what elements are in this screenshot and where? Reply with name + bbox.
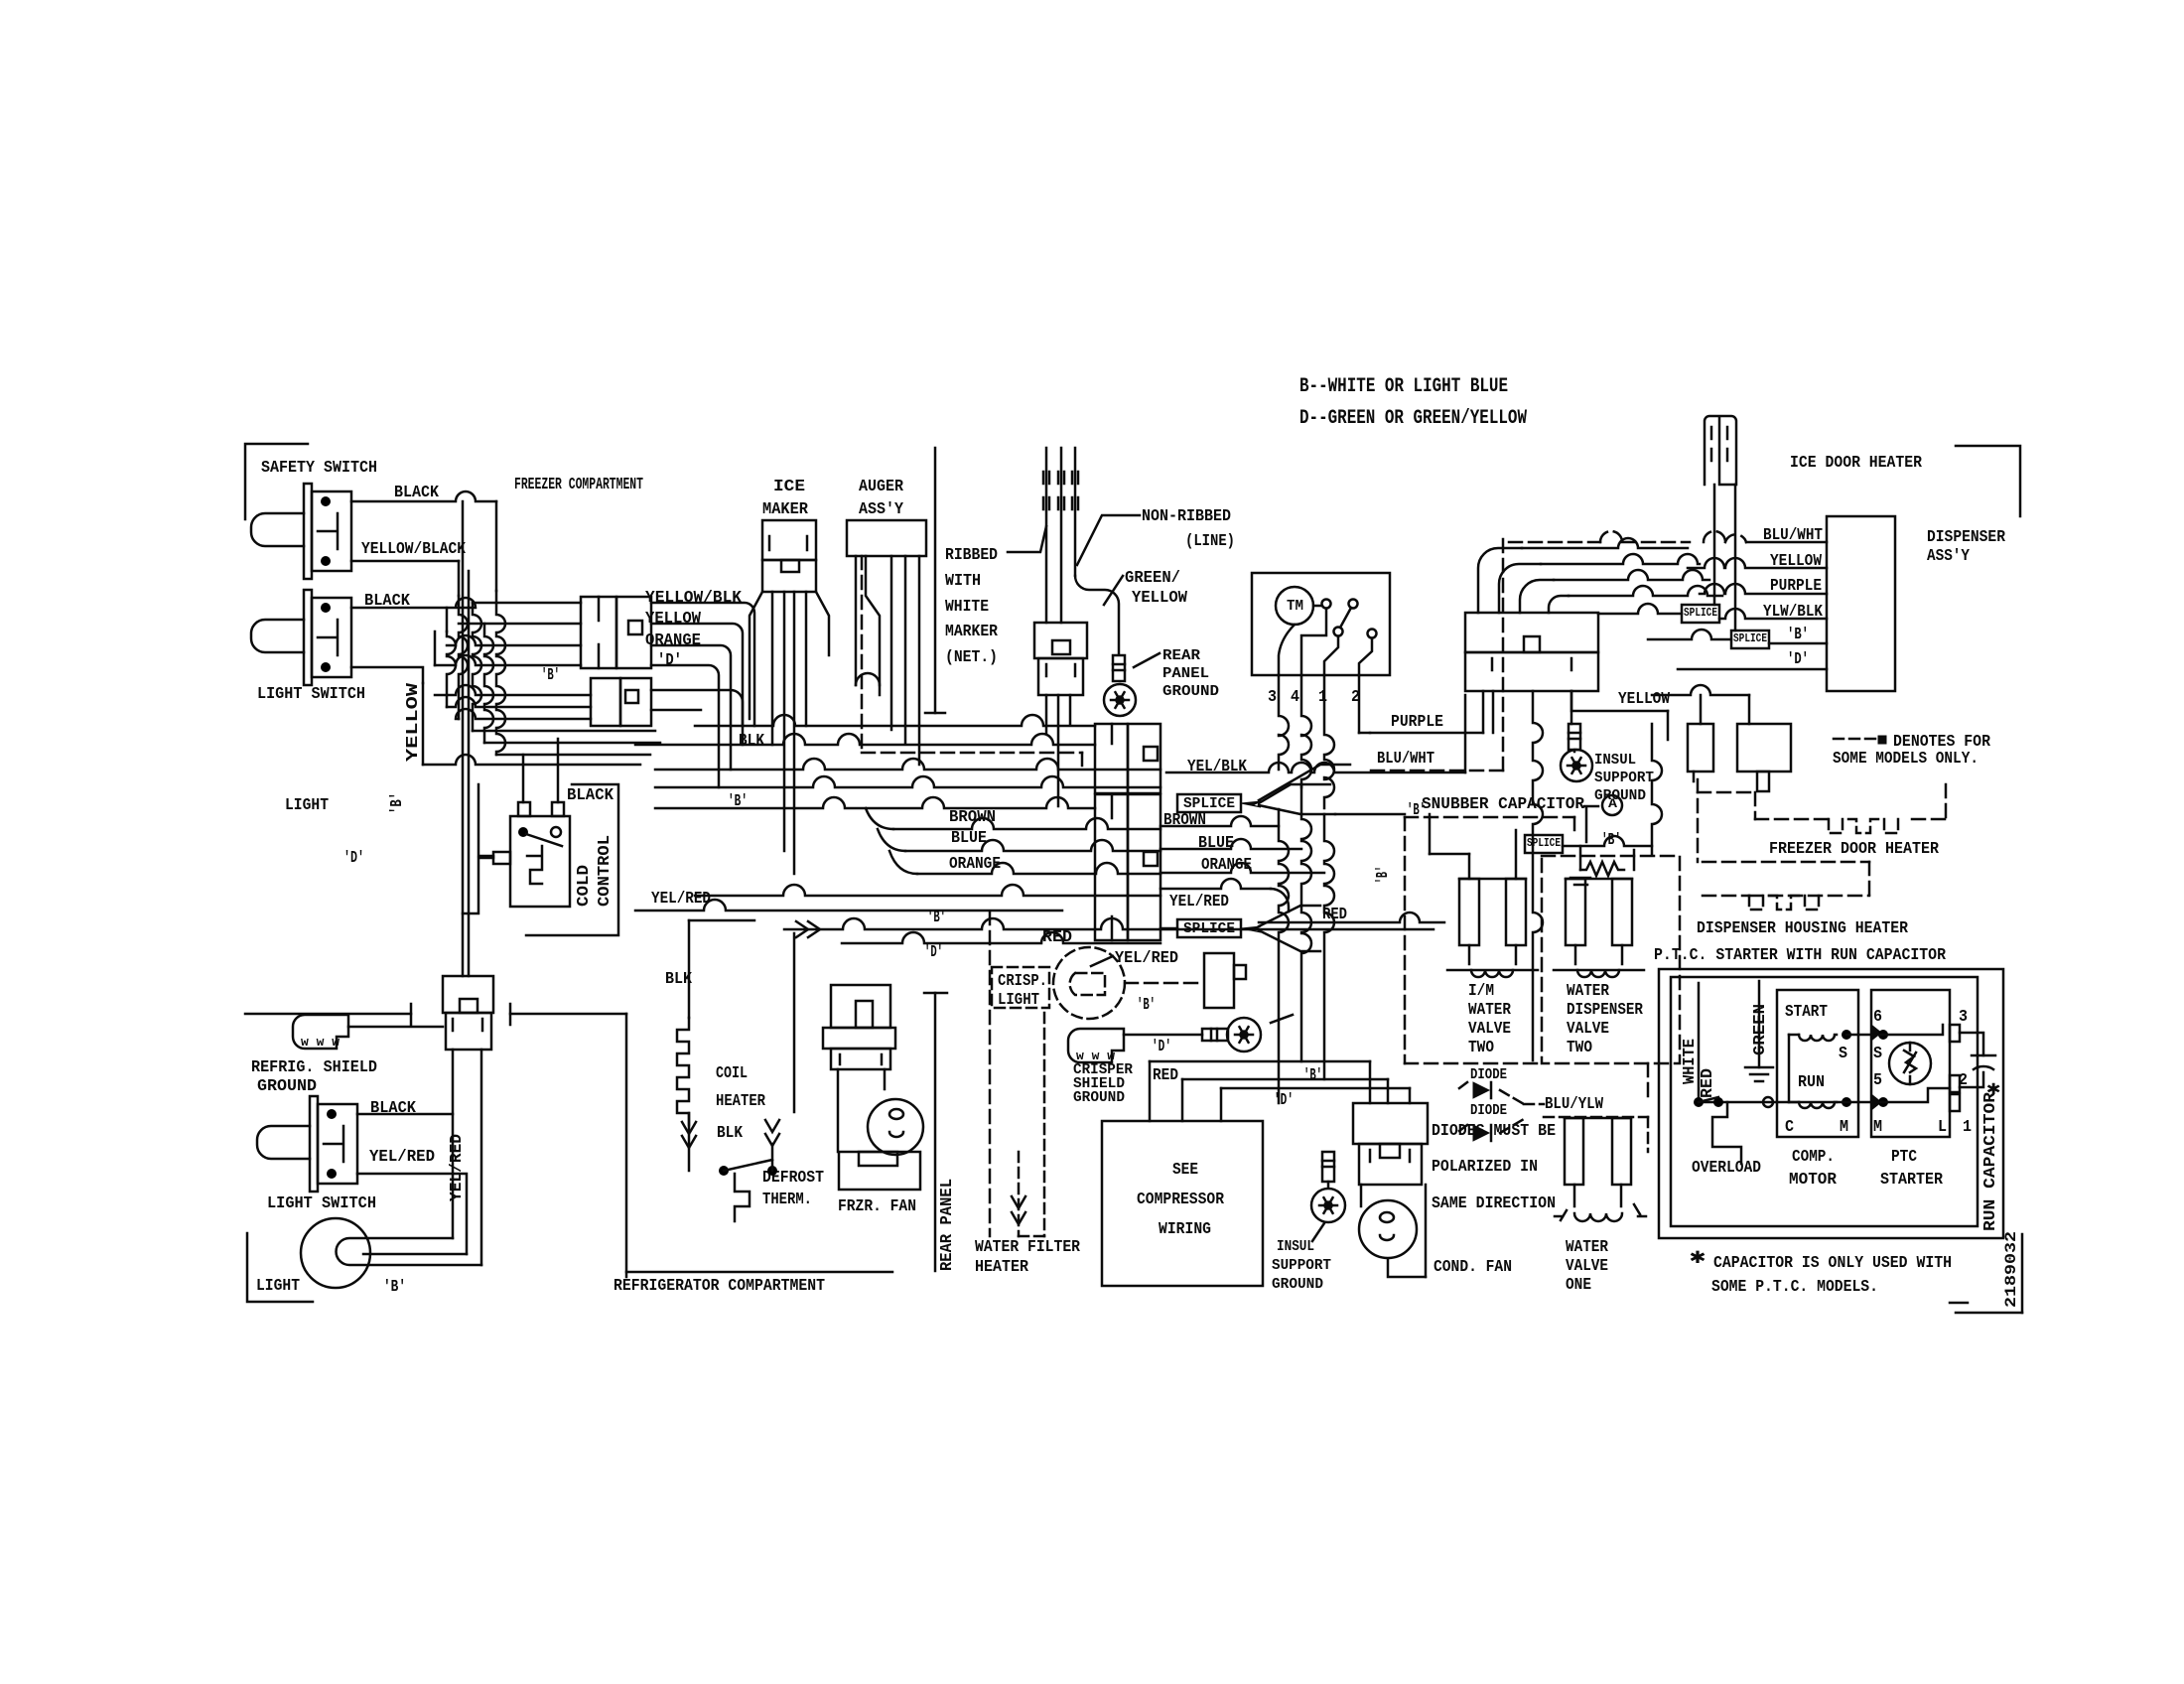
refrigerator compartment boundary <box>626 1271 892 1274</box>
freezer connector A <box>581 597 651 668</box>
svg-text:BLACK: BLACK <box>394 484 440 502</box>
insul support plug (disp) <box>1569 724 1580 752</box>
svg-text:WIRING: WIRING <box>1159 1220 1211 1239</box>
svg-text:S: S <box>1873 1045 1882 1063</box>
frzr fan connector <box>823 985 895 1069</box>
label INSUL SUPPORT GROUND (cond) <box>1272 1238 1331 1293</box>
label 'B' (mid) <box>927 909 946 927</box>
svg-text:A: A <box>1608 796 1617 811</box>
cold control box <box>510 816 570 907</box>
fdh wires up <box>1652 685 1749 724</box>
disp wire D <box>1678 668 1827 671</box>
svg-text:GROUND: GROUND <box>257 1077 317 1096</box>
water filter dashed bottom <box>1019 1235 1044 1238</box>
svg-text:D--GREEN OR GREEN/YELLOW: D--GREEN OR GREEN/YELLOW <box>1299 407 1527 430</box>
line cord wire 3 <box>1072 448 1119 653</box>
label ORANGE (conn) <box>645 631 701 650</box>
svg-text:FREEZER DOOR HEATER: FREEZER DOOR HEATER <box>1769 840 1940 859</box>
svg-text:GREEN: GREEN <box>1751 1004 1770 1055</box>
label 'B' vertical (mid) <box>1374 866 1393 884</box>
label 'B' vertical (left) <box>388 792 407 814</box>
svg-text:'B': 'B' <box>541 666 560 685</box>
crisper light circle <box>1053 947 1125 1019</box>
label YELLOW/BLACK <box>361 540 467 559</box>
svg-text:L: L <box>1938 1118 1947 1137</box>
label YEL/RED (right) <box>1169 893 1229 912</box>
wire BROWN right <box>1160 816 1279 826</box>
label AUGER ASS'Y <box>859 478 904 519</box>
svg-text:WHITE: WHITE <box>1681 1039 1700 1084</box>
comp motor box <box>1777 990 1858 1137</box>
label WATER FILTER HEATER <box>975 1238 1081 1277</box>
coil heater chevrons <box>682 1122 696 1148</box>
svg-text:'B': 'B' <box>1374 866 1393 884</box>
label YELLOW (disp) <box>1770 552 1823 571</box>
svg-text:'D': 'D' <box>1787 650 1809 669</box>
label LIGHT SWITCH (bottom) <box>267 1194 376 1213</box>
svg-text:'D': 'D' <box>343 849 364 868</box>
label YELLOW (disp conn) <box>1618 690 1671 709</box>
disp wire blu/wht <box>1509 531 1827 542</box>
ice maker wires down <box>772 592 829 874</box>
disp wire purple <box>1700 584 1827 594</box>
splice arrow 1 <box>1241 765 1350 814</box>
svg-text:TWO: TWO <box>1567 1039 1592 1057</box>
wire BLACK safety switch <box>351 491 496 591</box>
legend note line 1 <box>1299 375 1508 398</box>
crisper dashed wire right <box>1125 982 1201 985</box>
label LIGHT (bottom) <box>256 1277 300 1296</box>
cond fan motor <box>1359 1200 1417 1258</box>
frzr fan box bottom <box>839 1152 920 1190</box>
label terminal numbers 3 2 1 <box>1959 1008 1972 1137</box>
label DIODE (upper) <box>1470 1066 1507 1083</box>
ptc dots <box>1878 1030 1888 1107</box>
svg-text:SOME MODELS ONLY.: SOME MODELS ONLY. <box>1833 750 1979 769</box>
diode 1 <box>1459 1082 1524 1104</box>
label REFRIGERATOR COMPARTMENT <box>614 1277 825 1296</box>
svg-text:SUPPORT: SUPPORT <box>1272 1257 1331 1274</box>
label YEL/BLK (conn right) <box>1187 758 1248 776</box>
dashed box dhh <box>1703 862 1869 910</box>
label CAPACITOR IS ONLY USED WITH <box>1713 1254 1952 1273</box>
label 'B' (compressor) <box>1303 1066 1322 1085</box>
svg-text:SPLICE: SPLICE <box>1527 836 1561 850</box>
svg-text:WATER: WATER <box>1566 1238 1609 1257</box>
svg-text:YEL/RED: YEL/RED <box>651 890 711 909</box>
cold control contacts <box>518 827 562 884</box>
wire refrig conn drops <box>453 1050 481 1265</box>
svg-text:CRISP.: CRISP. <box>998 972 1047 991</box>
svg-text:INSUL: INSUL <box>1277 1238 1314 1255</box>
cond fan wires top <box>1370 1061 1410 1103</box>
wire b-bus 748 <box>484 742 660 745</box>
svg-text:4: 4 <box>1291 688 1299 707</box>
label 'B' (disp) <box>1787 626 1809 644</box>
svg-text:YEL/RED: YEL/RED <box>448 1134 467 1201</box>
label YEL/RED (bottom sw) <box>369 1148 435 1167</box>
ptc starter box <box>1871 990 1950 1137</box>
water dispenser valve two <box>1554 879 1644 977</box>
splice box 4 <box>1682 605 1719 623</box>
svg-text:ASS'Y: ASS'Y <box>859 500 904 519</box>
label DIODES MUST BE POLARIZED IN SAME DIRECTION <box>1432 1122 1556 1213</box>
ptc internal wires <box>1883 1025 1950 1102</box>
line cord wire 1 <box>1043 448 1049 623</box>
svg-text:5: 5 <box>1873 1071 1882 1090</box>
coil heater element <box>677 920 689 1171</box>
cabinet boundary left <box>245 1004 411 1025</box>
label COND. FAN <box>1433 1258 1512 1277</box>
label BLK (coil heater top) <box>665 970 693 989</box>
svg-text:M: M <box>1873 1118 1882 1137</box>
trunk vertical 3 <box>1324 814 1334 1079</box>
label YELLOW vertical <box>404 682 423 762</box>
svg-text:TWO: TWO <box>1468 1039 1494 1057</box>
label NON-RIBBED (LINE) <box>1142 507 1235 551</box>
label COLD CONTROL vertical <box>575 835 614 907</box>
svg-text:LIGHT: LIGHT <box>285 796 329 815</box>
svg-text:RIBBED: RIBBED <box>945 546 998 565</box>
auger assy box <box>847 520 926 556</box>
auger wire hump <box>856 673 880 685</box>
label INSUL SUPPORT GROUND (disp) <box>1594 752 1654 804</box>
line cord wire 2 <box>1058 448 1064 623</box>
label DEFROST THERM. <box>762 1169 824 1209</box>
fdh connector left <box>1688 724 1713 781</box>
label BLK (bus) <box>739 732 765 751</box>
svg-text:GROUND: GROUND <box>1162 683 1219 700</box>
svg-text:YELLOW: YELLOW <box>645 610 702 629</box>
svg-text:BLU/WHT: BLU/WHT <box>1377 750 1434 769</box>
label I/M WATER VALVE TWO <box>1468 982 1512 1057</box>
label DISPENSER ASS'Y <box>1927 528 2006 566</box>
svg-text:ICE: ICE <box>773 478 805 496</box>
wire YELLOW/BLACK safety switch <box>351 561 459 596</box>
comp motor internal wire <box>1788 1035 1791 1102</box>
safety switch <box>251 484 351 579</box>
svg-text:BLK: BLK <box>717 1124 744 1143</box>
label 'B' (conn) <box>541 666 560 685</box>
label YEL/RED (mid-left) <box>651 890 711 909</box>
wire b-bus 760 <box>496 754 650 757</box>
label 'B' (bottom light) <box>383 1278 406 1297</box>
svg-text:COIL: COIL <box>716 1064 748 1083</box>
trunk vertical 2 <box>1301 784 1311 1061</box>
bus line 9 <box>695 885 1160 896</box>
cabinet boundary right <box>510 1004 626 1277</box>
wire bundle vertical 6 <box>496 591 505 755</box>
label SNUBBER CAPACITOR <box>1422 795 1585 814</box>
svg-text:w w w: w w w <box>301 1035 340 1050</box>
start coil <box>1789 1030 1851 1041</box>
net marker line <box>925 448 945 713</box>
svg-text:SPLICE: SPLICE <box>1733 631 1767 645</box>
label RED (mid) <box>1042 928 1072 947</box>
legend note line 2 <box>1299 407 1527 430</box>
label OVERLOAD <box>1692 1159 1761 1178</box>
svg-text:MARKER: MARKER <box>945 623 999 641</box>
wire connB right 1 <box>651 690 743 726</box>
rear panel ground teardrop (top) <box>1104 684 1136 716</box>
svg-text:COLD: COLD <box>575 865 594 907</box>
svg-text:MOTOR: MOTOR <box>1789 1171 1838 1190</box>
line connector (center) <box>1034 623 1087 695</box>
splice arrow 2 <box>1241 906 1320 951</box>
wire PURPLE <box>1359 691 1483 733</box>
dashed enclosure wd2 <box>1542 856 1680 1063</box>
label CRISPER SHIELD GROUND <box>1073 1061 1133 1106</box>
corner bracket top-left <box>245 444 308 519</box>
defrost wire right <box>765 1120 779 1171</box>
label REAR PANEL GROUND (top) <box>1162 647 1219 700</box>
water filter dashed left <box>1019 1013 1044 1236</box>
svg-text:SOME P.T.C. MODELS.: SOME P.T.C. MODELS. <box>1711 1278 1878 1297</box>
svg-text:TM: TM <box>1287 598 1303 615</box>
splice box 2 <box>1177 919 1241 937</box>
timer motor TM <box>1276 587 1313 625</box>
label RUN CAPACITOR vertical <box>1981 1091 2000 1231</box>
svg-text:SAME DIRECTION: SAME DIRECTION <box>1432 1194 1556 1213</box>
wire bundle vertical 1 <box>434 631 437 665</box>
conn A right wire 2 <box>651 624 743 745</box>
svg-text:SEE: SEE <box>1172 1161 1198 1180</box>
svg-text:'B': 'B' <box>388 792 407 814</box>
label 'B' (crisper) <box>1137 996 1156 1015</box>
label DENOTES FOR SOME MODELS ONLY <box>1833 733 1991 769</box>
ice maker connector <box>762 520 816 592</box>
snubber dashed box <box>1405 817 1574 1063</box>
crisper shield lug <box>1068 1029 1124 1063</box>
ribbed pointer <box>1008 526 1046 552</box>
wire yelred lower switch <box>357 1174 467 1254</box>
svg-text:THERM.: THERM. <box>762 1191 812 1209</box>
svg-text:WATER FILTER: WATER FILTER <box>975 1238 1081 1257</box>
valve wires top <box>1430 814 1516 879</box>
ice maker wire left <box>750 592 762 719</box>
label GREEN/YELLOW <box>1125 569 1188 608</box>
label COMP. MOTOR <box>1789 1148 1838 1190</box>
label DISPENSER HOUSING HEATER <box>1697 919 1909 938</box>
wire to conn A pin1 <box>473 602 581 605</box>
label 'B' (snubber) <box>1601 831 1621 850</box>
label REFRIG. SHIELD GROUND <box>251 1058 377 1096</box>
bus line 3 <box>655 759 1160 770</box>
label SAFETY SWITCH <box>261 459 377 478</box>
svg-text:START: START <box>1785 1003 1828 1022</box>
label RED vertical <box>1699 1068 1717 1098</box>
wire to snubber B <box>1563 836 1652 846</box>
label 'D' (disp) <box>1787 650 1809 669</box>
svg-text:ORANGE: ORANGE <box>645 631 701 650</box>
label PURPLE <box>1391 713 1443 732</box>
label 'B' (timer bus) <box>1407 801 1426 820</box>
svg-text:REAR: REAR <box>1162 647 1200 664</box>
crisper conn (right) <box>1204 953 1246 1008</box>
label 'D' (crisper gnd) <box>1152 1038 1171 1056</box>
svg-text:CONTROL: CONTROL <box>596 835 614 907</box>
label BLUE (right) <box>1198 834 1234 853</box>
wire yellow vertical <box>422 683 425 765</box>
corner bracket dispenser <box>1956 446 2020 516</box>
green/yellow pointer <box>1104 576 1123 605</box>
label BLU/YLW <box>1545 1095 1604 1114</box>
wire white <box>1698 983 1701 1102</box>
svg-text:'D': 'D' <box>1274 1091 1294 1110</box>
svg-text:MAKER: MAKER <box>762 500 809 519</box>
wire YEL/RED right <box>1160 879 1289 912</box>
svg-text:BLACK: BLACK <box>567 786 614 805</box>
blu/ylw dashed wire <box>1524 1104 1648 1152</box>
splice box 5 <box>1731 631 1769 648</box>
svg-text:STARTER: STARTER <box>1880 1171 1944 1190</box>
svg-text:DISPENSER: DISPENSER <box>1927 528 2006 547</box>
svg-text:WITH: WITH <box>945 572 981 591</box>
svg-text:ICE DOOR HEATER: ICE DOOR HEATER <box>1790 454 1923 473</box>
svg-text:PANEL: PANEL <box>1162 665 1209 682</box>
light switch (lower) <box>257 1096 357 1192</box>
svg-text:HEATER: HEATER <box>975 1258 1029 1277</box>
label ORANGE (bus) <box>949 855 1001 874</box>
ptc outer box <box>1659 969 2003 1238</box>
label ICE DOOR HEATER <box>1790 454 1923 473</box>
svg-text:YEL/RED: YEL/RED <box>1169 893 1229 912</box>
svg-text:DISPENSER HOUSING HEATER: DISPENSER HOUSING HEATER <box>1697 919 1909 938</box>
svg-text:COND. FAN: COND. FAN <box>1433 1258 1512 1277</box>
dispenser assy box <box>1827 516 1895 691</box>
label BLUE (bus) <box>951 829 987 848</box>
svg-text:RED: RED <box>1699 1068 1717 1098</box>
svg-text:GROUND: GROUND <box>1073 1089 1125 1106</box>
svg-text:B--WHITE OR LIGHT BLUE: B--WHITE OR LIGHT BLUE <box>1299 375 1508 398</box>
svg-text:AUGER: AUGER <box>859 478 904 496</box>
svg-text:'B': 'B' <box>1303 1066 1322 1085</box>
svg-text:BLU/YLW: BLU/YLW <box>1545 1095 1604 1114</box>
svg-text:PTC: PTC <box>1891 1148 1917 1167</box>
disp wire yellow <box>1688 558 1827 568</box>
svg-text:YELLOW/BLK: YELLOW/BLK <box>645 589 743 608</box>
svg-text:'D': 'D' <box>1152 1038 1171 1056</box>
bus ORANGE wire <box>889 851 1160 874</box>
fdh connector right <box>1737 724 1791 791</box>
snubber label pointer <box>1584 806 1598 842</box>
wire to conn A pin4 <box>435 655 581 665</box>
crisper dashed vertical <box>989 912 992 1236</box>
svg-text:POLARIZED IN: POLARIZED IN <box>1432 1158 1538 1177</box>
svg-text:YELLOW: YELLOW <box>1618 690 1671 709</box>
label BROWN (bus) <box>949 808 996 827</box>
label FRZR. FAN <box>838 1197 916 1216</box>
wd2 wire <box>1647 1063 1650 1100</box>
label S M C terminals <box>1785 1045 1848 1137</box>
see compressor wiring box <box>1102 1121 1263 1286</box>
svg-text:DIODE: DIODE <box>1470 1102 1507 1119</box>
label 'B' (bus left) <box>728 792 748 811</box>
wire start to ptc <box>1846 1034 1883 1037</box>
defrost step <box>735 1174 750 1221</box>
insul pointer (crisper) <box>1271 1015 1293 1023</box>
splice box 1 <box>1177 794 1241 812</box>
run capacitor <box>1960 1033 1995 1087</box>
dashed box fdh <box>1698 779 1946 862</box>
rear panel ground pointer <box>1134 653 1160 667</box>
svg-text:LIGHT SWITCH: LIGHT SWITCH <box>267 1194 376 1213</box>
label YLW/BLK (disp) <box>1763 603 1824 622</box>
label WATER DISPENSER VALVE TWO <box>1567 982 1644 1057</box>
svg-text:YELLOW: YELLOW <box>1132 589 1188 608</box>
conn A right wire 1 <box>651 603 754 726</box>
wire bundle vertical 2 <box>447 631 456 707</box>
asterisk mark <box>1986 1078 2000 1101</box>
insul gnd (cond) <box>1311 1152 1345 1241</box>
svg-text:REFRIG. SHIELD: REFRIG. SHIELD <box>251 1058 377 1077</box>
svg-text:'D': 'D' <box>657 651 682 670</box>
label asterisk <box>1690 1245 1706 1270</box>
label SEE COMPRESSOR WIRING <box>1137 1161 1225 1239</box>
timer contacts <box>1322 600 1377 638</box>
label 'D' (left) <box>343 849 364 868</box>
rear panel marker <box>924 993 947 1271</box>
connector C1 <box>1095 724 1160 793</box>
I/M water valve two <box>1447 879 1538 977</box>
label 'D' (compressor) <box>1274 1091 1294 1110</box>
water filter chevrons <box>1012 1196 1025 1224</box>
svg-text:OVERLOAD: OVERLOAD <box>1692 1159 1761 1178</box>
connector C2 <box>1095 794 1160 940</box>
svg-text:HEATER: HEATER <box>716 1092 766 1111</box>
label YEL/RED vertical <box>448 1134 467 1201</box>
bus line B top <box>695 715 1095 726</box>
green ground <box>1745 981 1773 1081</box>
terminal tabs <box>1950 1025 1960 1111</box>
wire bundle vertical 4 <box>473 603 481 731</box>
label START <box>1785 1003 1828 1022</box>
wire cold control left terminal <box>463 858 493 913</box>
wire to conn B pin3 <box>456 709 591 719</box>
trunk wire B mid <box>1335 813 1405 816</box>
wire RED from splice <box>1259 912 1444 922</box>
label FREEZER COMPARTMENT <box>514 476 643 494</box>
wire to conn B pin1 <box>435 685 591 695</box>
svg-text:'B': 'B' <box>1137 996 1156 1015</box>
wire b-bus 736 <box>473 730 655 733</box>
label FREEZER DOOR HEATER <box>1769 840 1940 859</box>
svg-text:ONE: ONE <box>1566 1276 1591 1295</box>
svg-text:WATER: WATER <box>1468 1001 1512 1020</box>
wire bundle vertical 5 <box>484 624 493 743</box>
svg-text:YEL/RED: YEL/RED <box>369 1148 435 1167</box>
ice door heater wires <box>1714 485 1735 631</box>
cond fan connector <box>1353 1103 1428 1185</box>
svg-text:I/M: I/M <box>1468 982 1494 1001</box>
label RIBBED WITH WHITE MARKER (NET.) <box>945 546 999 667</box>
label REAR PANEL vertical <box>938 1179 957 1271</box>
svg-text:VALVE: VALVE <box>1567 1020 1609 1039</box>
insul gnd (crisper) <box>1227 1018 1261 1052</box>
bus line RED in <box>1160 927 1177 930</box>
svg-text:INSUL: INSUL <box>1594 752 1636 769</box>
svg-text:RUN CAPACITOR: RUN CAPACITOR <box>1981 1091 2000 1231</box>
freezer connector B <box>591 678 651 726</box>
white red junction <box>1694 1097 1718 1107</box>
timer pin wires <box>1279 675 1359 808</box>
svg-text:S: S <box>1839 1045 1847 1063</box>
label BLK (coil heater bot) <box>717 1124 744 1143</box>
rear panel ground plug (top) <box>1113 655 1125 681</box>
C3 wires top <box>1478 538 1722 613</box>
light loop (bottom) <box>301 1218 481 1288</box>
wires to cold control top <box>523 739 558 802</box>
